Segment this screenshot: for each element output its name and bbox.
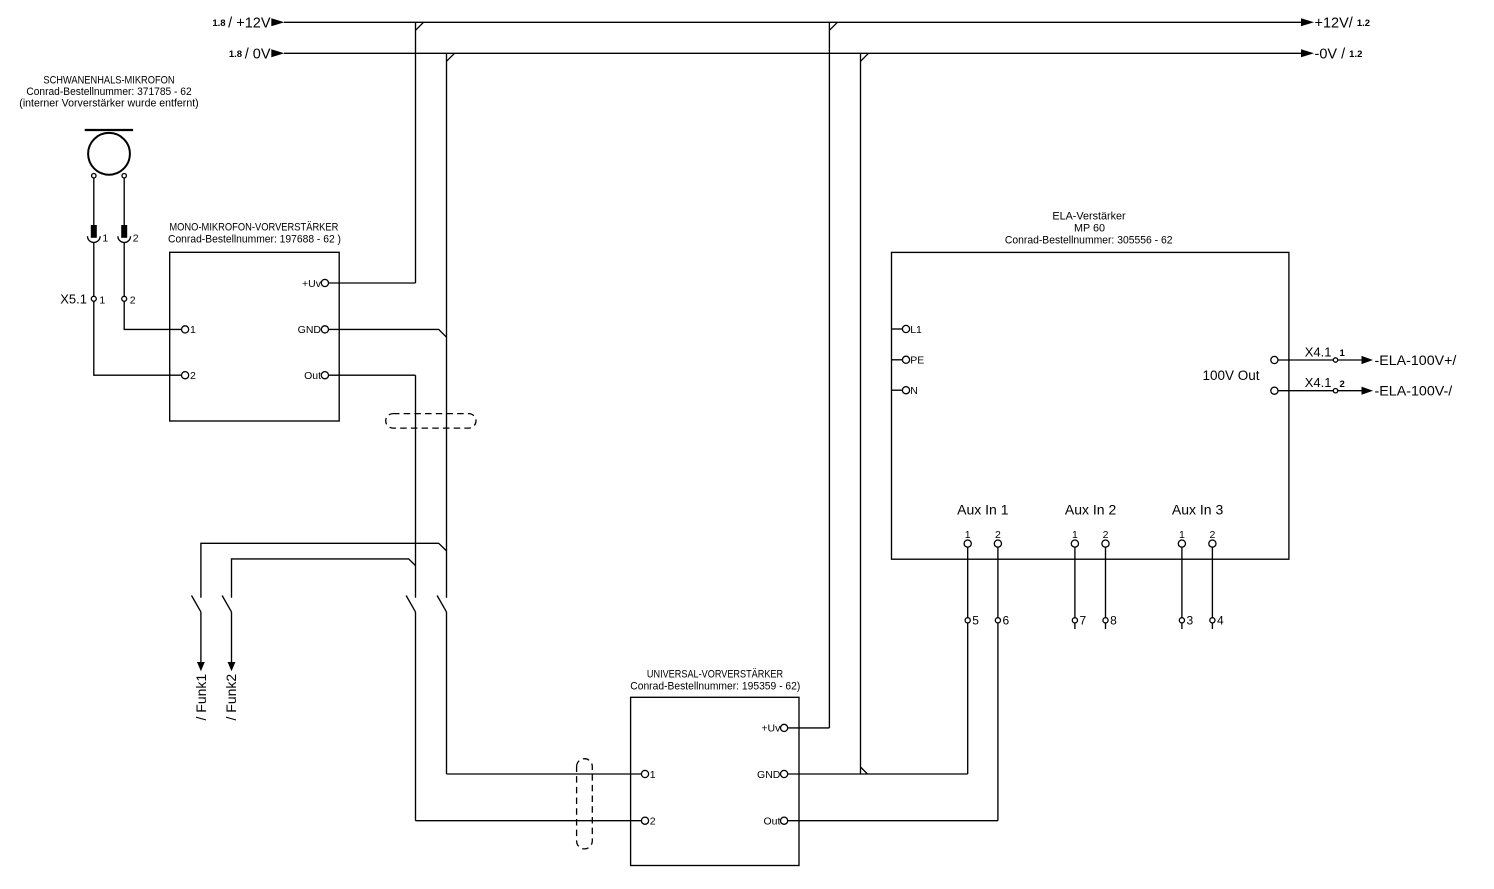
- svg-text:ELA-Verstärker: ELA-Verstärker: [1052, 211, 1126, 223]
- svg-text:GND: GND: [757, 769, 781, 781]
- svg-text:1: 1: [99, 294, 105, 306]
- svg-text:MP 60: MP 60: [1074, 223, 1105, 235]
- svg-text:GND: GND: [298, 324, 322, 336]
- svg-text:-ELA-100V+/: -ELA-100V+/: [1375, 352, 1457, 368]
- svg-text:2: 2: [1103, 529, 1109, 541]
- svg-text:-ELA-100V-/: -ELA-100V-/: [1375, 383, 1453, 399]
- svg-text:(interner Vorverstärker wurde: (interner Vorverstärker wurde entfernt): [19, 97, 198, 109]
- svg-text:2: 2: [130, 294, 136, 306]
- svg-text:Conrad-Bestellnummer: 371785 -: Conrad-Bestellnummer: 371785 - 62: [26, 86, 191, 98]
- svg-text:5: 5: [972, 614, 979, 628]
- svg-text:2: 2: [1209, 529, 1215, 541]
- svg-text:X4.1: X4.1: [1305, 375, 1332, 390]
- svg-text:7: 7: [1080, 614, 1087, 628]
- svg-text:Aux In 2: Aux In 2: [1065, 501, 1117, 517]
- svg-text:100V Out: 100V Out: [1202, 368, 1259, 383]
- svg-text:Conrad-Bestellnummer: 195359 -: Conrad-Bestellnummer: 195359 - 62): [630, 681, 800, 693]
- svg-text:N: N: [910, 385, 918, 397]
- svg-text:X5.1: X5.1: [60, 291, 87, 306]
- svg-text:UNIVERSAL-VORVERSTÄRKER: UNIVERSAL-VORVERSTÄRKER: [647, 669, 783, 681]
- svg-text:2: 2: [190, 370, 196, 382]
- svg-text:PE: PE: [910, 355, 924, 367]
- svg-text:2: 2: [133, 232, 139, 244]
- svg-text:1: 1: [1340, 348, 1346, 359]
- svg-text:1: 1: [650, 769, 656, 781]
- svg-text:8: 8: [1110, 614, 1117, 628]
- svg-text:2: 2: [1340, 379, 1345, 390]
- svg-text:1: 1: [1072, 529, 1078, 541]
- svg-text:+Uv: +Uv: [761, 723, 781, 735]
- svg-text:/ Funk1: / Funk1: [193, 674, 209, 721]
- svg-text:MONO-MIKROFON-VORVERSTÄRKER: MONO-MIKROFON-VORVERSTÄRKER: [169, 222, 338, 234]
- svg-text:Aux In 3: Aux In 3: [1172, 501, 1224, 517]
- svg-text:1: 1: [1179, 529, 1185, 541]
- svg-text:Out: Out: [763, 816, 780, 828]
- svg-text:SCHWANENHALS-MIKROFON: SCHWANENHALS-MIKROFON: [43, 75, 174, 87]
- svg-text:2: 2: [995, 529, 1001, 541]
- svg-text:1: 1: [965, 529, 971, 541]
- svg-text:Aux In 1: Aux In 1: [957, 501, 1009, 517]
- svg-text:4: 4: [1217, 614, 1224, 628]
- svg-text:3: 3: [1187, 614, 1194, 628]
- svg-text:2: 2: [650, 816, 656, 828]
- svg-text:Conrad-Bestellnummer: 305556 -: Conrad-Bestellnummer: 305556 - 62: [1005, 234, 1173, 246]
- svg-text:X4.1: X4.1: [1305, 345, 1332, 360]
- svg-text:6: 6: [1003, 614, 1010, 628]
- svg-text:Out: Out: [304, 370, 321, 382]
- svg-text:+Uv: +Uv: [302, 278, 322, 290]
- svg-text:Conrad-Bestellnummer: 197688 -: Conrad-Bestellnummer: 197688 - 62 ): [168, 234, 341, 246]
- svg-text:/ Funk2: / Funk2: [223, 674, 239, 721]
- svg-text:L1: L1: [910, 324, 922, 336]
- svg-text:1: 1: [102, 232, 108, 244]
- svg-text:1: 1: [190, 324, 196, 336]
